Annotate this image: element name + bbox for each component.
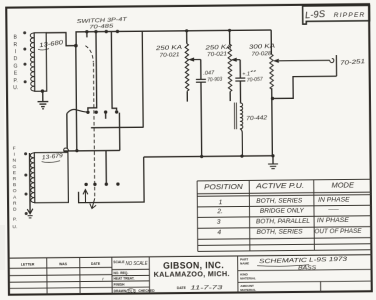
svg-text:MODE: MODE — [331, 182, 354, 189]
svg-text:MATERIAL: MATERIAL — [240, 276, 256, 280]
wiper arrow R1 — [194, 58, 201, 60]
svg-text:70-442: 70-442 — [246, 115, 268, 122]
output jack 70-251 — [330, 59, 334, 63]
svg-text:4: 4 — [217, 229, 221, 236]
switch rotor dashed linkage — [85, 46, 93, 63]
switch pole stub from contact 1 — [86, 32, 88, 38]
svg-text:I: I — [15, 49, 16, 55]
junction node cap1 — [200, 155, 203, 158]
inductor 70-442 — [233, 103, 235, 130]
ground below bridge pickup — [42, 91, 44, 101]
svg-text:D: D — [14, 56, 18, 62]
svg-text:DRAWN: DRAWN — [114, 289, 127, 293]
title strip top rule — [9, 255, 372, 258]
capacitor C2 .1 70-057 — [239, 60, 241, 78]
svg-text:POSITION: POSITION — [204, 184, 244, 191]
position table text — [204, 182, 362, 236]
svg-text:SCALE: SCALE — [113, 260, 125, 264]
company block GIBSON INC — [237, 256, 239, 292]
svg-text:P.: P. — [13, 217, 17, 223]
switch pole wire from contact 2 — [87, 32, 97, 111]
svg-text:LETTER: LETTER — [21, 262, 35, 266]
svg-text:L-9S: L-9S — [305, 9, 327, 22]
switch deck 3 wiper arrow — [83, 190, 88, 203]
svg-text:CHECKED: CHECKED — [138, 289, 155, 293]
wire vertical left of switch — [66, 113, 68, 148]
svg-text:ACTIVE P.U.: ACTIVE P.U. — [255, 183, 304, 190]
svg-text:70-028: 70-028 — [251, 51, 272, 58]
wire top bus from bridge pickup to pots — [46, 32, 76, 45]
wire ground bus — [144, 156, 273, 157]
svg-text:70-021: 70-021 — [159, 52, 179, 59]
wire loop flourish — [64, 148, 69, 152]
svg-text:MATERIAL: MATERIAL — [240, 288, 256, 292]
junction node pot R1 — [185, 29, 188, 32]
svg-text:G: G — [12, 164, 16, 170]
svg-text:U.: U. — [13, 85, 18, 91]
svg-text:——: —— — [327, 206, 339, 212]
junction node pot R2 — [228, 29, 231, 32]
svg-text:P.: P. — [14, 78, 18, 84]
svg-text:R: R — [13, 176, 17, 182]
svg-text:70-057: 70-057 — [247, 77, 264, 84]
ground at bus right end — [271, 154, 274, 157]
svg-text:G: G — [14, 63, 18, 69]
switch position table — [197, 179, 372, 251]
svg-text:BRIDGE ONLY: BRIDGE ONLY — [260, 208, 305, 214]
svg-text:RIPPER: RIPPER — [334, 12, 366, 19]
fingerboard pickup coil and bobbin 13-679 — [34, 152, 68, 202]
potentiometer R1 250KA 70-021 — [186, 31, 188, 44]
svg-text:GIBSON, INC.: GIBSON, INC. — [163, 260, 224, 271]
svg-text:NO. REQ.: NO. REQ. — [113, 271, 128, 275]
bridge pickup label BRIDGE P.U. — [13, 35, 19, 91]
svg-text:NAME: NAME — [240, 261, 249, 265]
wire from top bus down to switch deck 2 — [141, 31, 144, 127]
fingerboard pickup pole dots — [24, 152, 28, 215]
junction node at switch feed — [74, 44, 78, 48]
svg-text:KALAMAZOO, MICH.: KALAMAZOO, MICH. — [154, 271, 230, 279]
fingerboard pickup label FINGERBOARD P.U. — [12, 146, 18, 231]
switch rotor arrow — [90, 198, 96, 208]
svg-text:NO SCALE: NO SCALE — [126, 261, 148, 267]
wire from deck 3 to bus — [78, 157, 144, 203]
svg-text:3: 3 — [217, 218, 221, 225]
svg-text:WAS: WAS — [59, 262, 68, 266]
svg-text:BOTH, SERIES: BOTH, SERIES — [257, 229, 303, 235]
wire hop over pole — [67, 109, 88, 113]
svg-text:11-7-73: 11-7-73 — [190, 285, 224, 291]
svg-text:R: R — [13, 42, 17, 48]
svg-text:IN PHASE: IN PHASE — [317, 218, 350, 224]
switch deck 3 contact dots — [84, 182, 119, 186]
bridge pickup pole dots — [23, 31, 26, 83]
potentiometer R2 250KA 70-021 — [229, 30, 231, 44]
svg-text:OUT OF PHASE: OUT OF PHASE — [314, 229, 362, 235]
switch contact dots row 1 — [85, 30, 119, 34]
svg-text:I: I — [14, 152, 15, 158]
svg-text:HEAT TREAT.: HEAT TREAT. — [114, 277, 135, 281]
svg-text:O: O — [13, 188, 17, 194]
svg-text:BLC: BLC — [128, 289, 137, 294]
svg-text:70-903: 70-903 — [207, 76, 223, 83]
switch pole wire from contacts 3-4 — [111, 31, 116, 110]
title box L-9S RIPPER — [303, 5, 370, 24]
wire jack to ground bus — [272, 76, 336, 98]
svg-text:250 KA: 250 KA — [155, 45, 183, 52]
wiper arrow R3 to output jack — [279, 59, 330, 61]
junction node — [75, 149, 78, 152]
switch deck 2 frame wires — [118, 113, 120, 151]
svg-text:BASS: BASS — [298, 265, 317, 271]
svg-text:U.: U. — [12, 224, 17, 230]
svg-text:F: F — [13, 146, 16, 152]
svg-text:70-021: 70-021 — [207, 51, 227, 58]
svg-text:BOTH, PARALLEL: BOTH, PARALLEL — [256, 219, 310, 226]
svg-text:250 KA: 250 KA — [204, 44, 232, 51]
svg-text:IN PHASE: IN PHASE — [318, 197, 351, 203]
svg-text:E: E — [13, 170, 16, 176]
switch deck 2 contact dots — [86, 110, 118, 114]
svg-text:70-485: 70-485 — [89, 23, 113, 30]
svg-text:2.: 2. — [216, 208, 223, 215]
revision table LETTER WAS DATE — [9, 257, 113, 294]
part name block — [238, 269, 373, 292]
svg-text:R: R — [13, 201, 17, 207]
svg-text:.047: .047 — [203, 70, 215, 77]
wire deck2 lower horizontal — [64, 149, 120, 152]
junction node inductor — [240, 154, 243, 157]
svg-text:N: N — [13, 158, 17, 164]
ground arrow below fingerboard pickup — [29, 153, 32, 213]
svg-text:300 KA: 300 KA — [249, 44, 275, 51]
svg-text:1: 1 — [219, 199, 223, 206]
bridge pickup coil and bobbin 13-680 — [34, 33, 47, 92]
capacitor C1 .047 70-903 — [200, 59, 202, 79]
switch long pole wire — [76, 46, 77, 151]
potentiometer R3 300KA 70-028 — [270, 30, 272, 54]
svg-text:D: D — [13, 207, 17, 213]
scale block — [112, 257, 150, 294]
svg-text:FINISH: FINISH — [114, 283, 125, 287]
svg-text:DATE: DATE — [91, 262, 101, 266]
wiper arrow R2 — [237, 59, 241, 61]
svg-text:BOTH, SERIES: BOTH, SERIES — [256, 198, 302, 204]
svg-text:B: B — [13, 182, 16, 188]
svg-text:DATE: DATE — [177, 286, 187, 290]
